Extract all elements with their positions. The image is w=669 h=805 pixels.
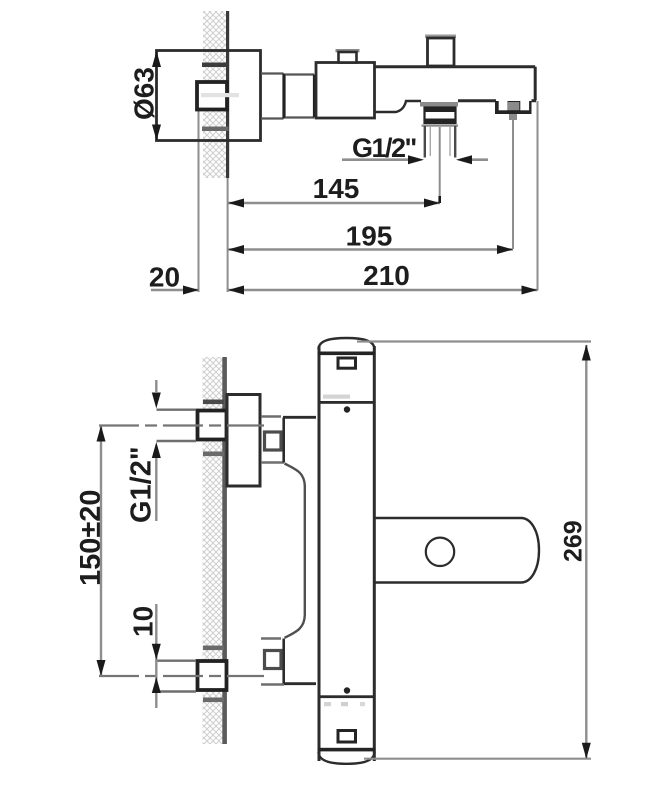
svg-text:10: 10 — [128, 606, 159, 637]
G1/2 dim line vertical — [155, 380, 157, 521]
spout body (side view) — [375, 67, 536, 101]
shower outlet upper ring — [424, 107, 457, 113]
top inlet pipe — [157, 410, 197, 441]
column joint line top — [319, 401, 376, 404]
G1/2 dim line — [342, 158, 488, 161]
svg-text:145: 145 — [313, 173, 360, 204]
wall hatch (front view) — [203, 357, 223, 744]
269 extension top — [357, 340, 591, 342]
body underside ledge — [375, 101, 421, 112]
S-pipe top edge — [283, 416, 316, 419]
column bottom cap line — [318, 748, 376, 752]
shower outlet tube walls — [425, 126, 455, 158]
top plate — [338, 358, 356, 368]
bottom inlet pipe — [157, 661, 197, 692]
column top arc — [319, 338, 375, 350]
S-pipe bottom edge — [283, 682, 316, 685]
extension line bracket (195) — [512, 120, 514, 249]
bottom inlet slot lower — [203, 698, 224, 703]
diverter knob lip — [425, 35, 456, 39]
faint marking on union — [201, 93, 239, 97]
bottom plate — [338, 731, 356, 743]
svg-text:Ø63: Ø63 — [129, 67, 160, 120]
bottom inlet union square — [198, 661, 227, 690]
spout screw circle — [426, 538, 454, 566]
svg-text:210: 210 — [363, 260, 410, 291]
269 dim line — [585, 345, 587, 759]
cartridge cap lip — [336, 49, 360, 52]
column joint line bottom — [319, 695, 376, 698]
top inlet centerline — [99, 424, 264, 426]
shower bracket — [495, 101, 532, 114]
outlet centerline — [439, 127, 441, 199]
bottom inlet slot upper — [203, 646, 224, 651]
bracket stem — [509, 114, 517, 120]
S-pipe silhouette — [285, 464, 305, 638]
column top cap line — [318, 352, 376, 356]
269 extension bottom — [364, 758, 591, 760]
column body edges — [319, 346, 374, 761]
sleeve ring — [285, 75, 314, 118]
column bottom arc — [319, 752, 375, 764]
top inlet union square — [198, 411, 227, 440]
spout (front view) — [376, 518, 540, 583]
wall face line (top view) — [226, 11, 229, 178]
top rosette — [227, 395, 260, 487]
svg-text:269: 269 — [560, 520, 588, 562]
wall back extension line — [198, 110, 200, 292]
shower outlet ring frame — [425, 108, 456, 124]
G1/2 arrows (front) — [152, 393, 161, 409]
svg-text:20: 20 — [149, 262, 180, 293]
bottom collar — [261, 639, 284, 685]
top hex nut — [265, 432, 282, 450]
top inlet slot lower — [203, 452, 224, 457]
knob slot upper — [202, 63, 229, 68]
shower outlet lower ring — [424, 119, 457, 125]
adapter ring — [261, 74, 284, 119]
button dot top — [344, 406, 350, 412]
diverter knob — [428, 38, 455, 66]
faint text top — [323, 395, 350, 399]
G1/2 arrows — [408, 155, 424, 164]
top collar — [261, 417, 284, 463]
S-union square (side view) — [197, 82, 227, 110]
bottom hex nut — [265, 651, 282, 669]
wall hatch (top view) — [203, 11, 227, 178]
cartridge housing — [316, 63, 375, 119]
shower outlet flange — [420, 102, 458, 107]
knob slot lower — [202, 127, 229, 132]
cartridge cap — [339, 52, 357, 63]
wall face line (front view) — [222, 357, 227, 744]
faint text bottom — [324, 702, 331, 706]
shower outlet ring shade — [422, 125, 459, 127]
bottom inlet centerline — [99, 675, 264, 677]
dia 63 dim arrows — [152, 51, 161, 67]
knob (temperature handle, side view) — [157, 51, 261, 141]
top inlet slot upper — [203, 400, 224, 405]
extension line body end (210) — [537, 101, 539, 291]
svg-text:195: 195 — [346, 221, 393, 252]
button dot bottom — [344, 687, 350, 693]
